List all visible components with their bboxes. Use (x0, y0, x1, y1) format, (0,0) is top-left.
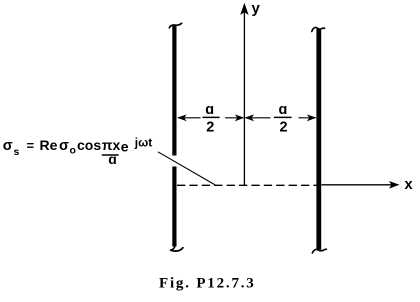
left plate (upper segment) (172, 25, 176, 156)
left a/2 fraction bar (203, 116, 220, 118)
svg-text:Fig. P12.7.3: Fig. P12.7.3 (159, 276, 256, 292)
svg-text:o: o (70, 145, 76, 157)
svg-text:Re: Re (40, 137, 58, 153)
right dimension left arrow (246, 117, 271, 119)
svg-text:ɑ: ɑ (205, 102, 214, 118)
right plate top hook (312, 27, 325, 31)
svg-text:e: e (121, 139, 129, 155)
svg-text:cos: cos (77, 137, 101, 153)
svg-text:ɑ: ɑ (279, 102, 288, 118)
svg-text:jωt: jωt (134, 135, 152, 149)
svg-text:σ: σ (3, 138, 13, 154)
svg-text:2: 2 (206, 120, 214, 136)
x-axis dashed segment (177, 184, 316, 186)
fraction bar under pi x (102, 154, 119, 156)
svg-text:2: 2 (280, 120, 288, 136)
svg-text:σ: σ (59, 138, 69, 154)
left plate bottom hook (170, 245, 183, 251)
svg-text:ɑ: ɑ (108, 151, 117, 167)
svg-text:y: y (252, 0, 261, 17)
left dimension right arrow (225, 117, 243, 119)
right dimension right arrow (299, 117, 316, 119)
left plate top hook (169, 23, 181, 28)
svg-text:s: s (14, 146, 20, 158)
right plate (316, 29, 321, 250)
pointer line from formula to x-axis (158, 152, 215, 185)
y-axis line (243, 11, 245, 186)
right a/2 fraction bar (274, 116, 292, 118)
svg-text:x: x (405, 177, 413, 193)
right plate bottom hook (312, 249, 326, 253)
x-axis arrowhead (389, 181, 400, 189)
y-axis arrowhead (240, 3, 248, 15)
svg-text:=: = (27, 138, 35, 153)
left dimension left arrow (178, 117, 201, 119)
left plate (lower segment) (172, 167, 176, 247)
x-axis solid segment (322, 184, 397, 186)
